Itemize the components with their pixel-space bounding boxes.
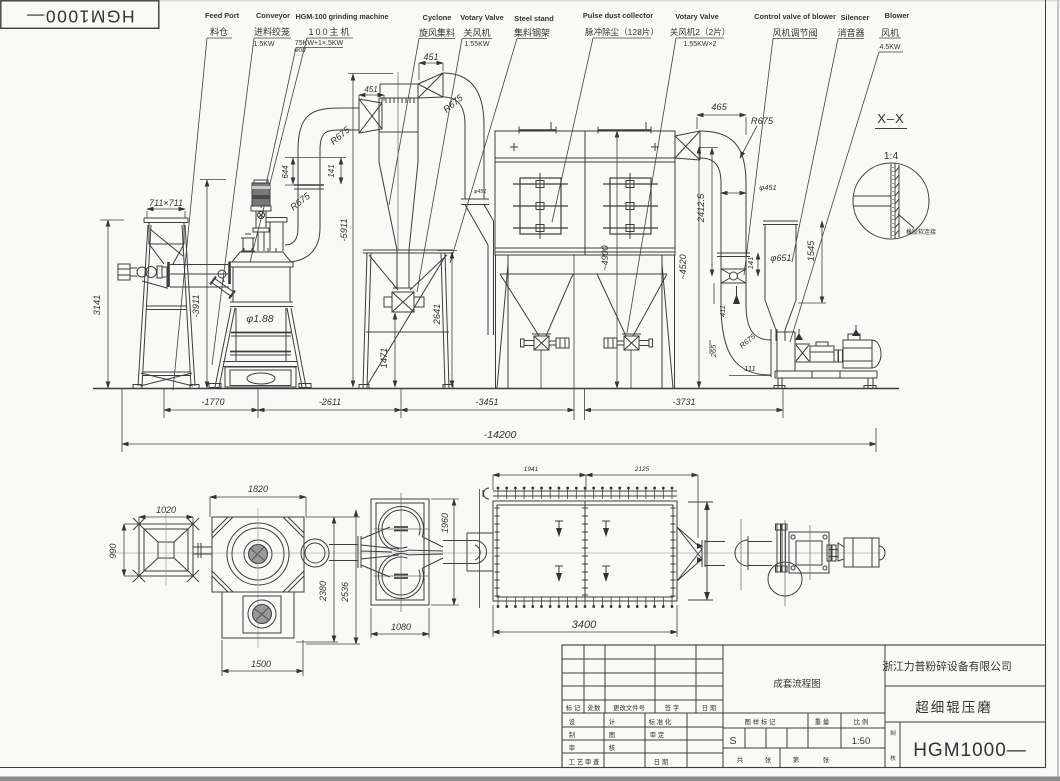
svg-text:-2611: -2611 xyxy=(319,397,341,407)
svg-text:1:50: 1:50 xyxy=(852,736,871,747)
svg-text:φ451: φ451 xyxy=(474,189,487,195)
svg-text:Votary Valve: Votary Valve xyxy=(675,12,718,21)
svg-text:处数: 处数 xyxy=(588,703,601,712)
svg-text:1020: 1020 xyxy=(156,505,176,515)
svg-text:消音器: 消音器 xyxy=(837,27,864,38)
svg-text:日 期: 日 期 xyxy=(654,758,669,766)
svg-text:重 量: 重 量 xyxy=(815,718,830,726)
svg-text:图 样 标 记: 图 样 标 记 xyxy=(745,717,776,726)
svg-text:141: 141 xyxy=(327,164,336,177)
svg-text:451: 451 xyxy=(364,85,377,94)
svg-text:1.55KW×2: 1.55KW×2 xyxy=(684,41,717,48)
svg-text:HGM1000—: HGM1000— xyxy=(913,740,1027,761)
svg-text:644: 644 xyxy=(281,165,290,179)
svg-text:-3451: -3451 xyxy=(475,397,498,407)
svg-text:-14200: -14200 xyxy=(484,429,517,441)
svg-text:工 艺 审 查: 工 艺 审 查 xyxy=(569,757,600,766)
svg-text:465: 465 xyxy=(711,102,727,112)
svg-text:100主机: 100主机 xyxy=(308,26,351,37)
svg-text:比 例: 比 例 xyxy=(854,717,869,726)
svg-text:集料钢架: 集料钢架 xyxy=(514,27,550,38)
svg-text:图: 图 xyxy=(609,731,615,739)
svg-text:1941: 1941 xyxy=(524,466,539,473)
svg-text:3141: 3141 xyxy=(92,295,102,316)
svg-text:签 字: 签 字 xyxy=(665,703,680,712)
svg-text:旋风集料: 旋风集料 xyxy=(419,27,455,38)
svg-text:2125: 2125 xyxy=(634,466,650,473)
svg-text:标 记: 标 记 xyxy=(566,703,581,712)
svg-text:1820: 1820 xyxy=(248,484,268,494)
svg-text:~4520: ~4520 xyxy=(678,254,688,279)
svg-text:Pulse dust collector: Pulse dust collector xyxy=(583,11,653,20)
svg-text:HGM-100 grinding machine: HGM-100 grinding machine xyxy=(295,12,388,21)
svg-text:脉冲除尘（128片）: 脉冲除尘（128片） xyxy=(585,27,659,37)
svg-text:HGM1000—: HGM1000— xyxy=(25,6,134,26)
svg-text:审: 审 xyxy=(569,743,575,752)
svg-text:浙江力普粉碎设备有限公司: 浙江力普粉碎设备有限公司 xyxy=(882,659,1012,673)
svg-text:Votary Valve: Votary Valve xyxy=(460,13,503,22)
svg-text:Cyclone: Cyclone xyxy=(423,13,452,22)
svg-text:1960: 1960 xyxy=(440,513,450,533)
svg-text:Conveyor: Conveyor xyxy=(256,11,290,20)
svg-text:φ451: φ451 xyxy=(759,183,776,192)
svg-text:核: 核 xyxy=(890,754,896,762)
svg-text:1500: 1500 xyxy=(251,659,271,669)
svg-text:R675: R675 xyxy=(751,116,774,126)
svg-text:411: 411 xyxy=(718,305,727,317)
svg-text:风机: 风机 xyxy=(881,27,899,38)
svg-text:橡胶软连接: 橡胶软连接 xyxy=(906,228,936,236)
svg-text:-5911: -5911 xyxy=(339,218,349,241)
svg-text:关风机: 关风机 xyxy=(463,27,490,38)
svg-text:2380: 2380 xyxy=(318,581,328,602)
svg-text:Feed Port: Feed Port xyxy=(205,11,240,20)
svg-text:1.55KW: 1.55KW xyxy=(465,41,490,48)
svg-text:2536: 2536 xyxy=(340,582,350,603)
svg-text:Blower: Blower xyxy=(885,11,910,20)
svg-text:设: 设 xyxy=(569,717,576,726)
svg-text:张: 张 xyxy=(765,755,772,764)
svg-text:3400: 3400 xyxy=(572,619,597,631)
svg-text:X–X: X–X xyxy=(877,111,905,126)
svg-text:审 定: 审 定 xyxy=(650,730,665,739)
svg-text:制: 制 xyxy=(890,729,896,737)
svg-text:1:4: 1:4 xyxy=(884,150,899,162)
svg-text:-1770: -1770 xyxy=(201,397,224,407)
svg-text:第: 第 xyxy=(793,755,800,764)
svg-text:2412.5: 2412.5 xyxy=(696,193,706,223)
svg-text:1471: 1471 xyxy=(379,348,389,369)
svg-text:进料绞笼: 进料绞笼 xyxy=(254,26,290,37)
svg-text:Control valve of blower: Control valve of blower xyxy=(754,12,836,21)
svg-text:关风机2（2片）: 关风机2（2片） xyxy=(670,27,730,37)
svg-text:标 准 化: 标 准 化 xyxy=(649,717,672,726)
svg-text:265: 265 xyxy=(709,344,718,358)
svg-text:共: 共 xyxy=(737,755,744,764)
svg-text:料仓: 料仓 xyxy=(210,26,228,37)
svg-text:日 期: 日 期 xyxy=(702,704,717,712)
svg-text:Steel stand: Steel stand xyxy=(514,14,554,23)
svg-text:75KW+1×.5KW: 75KW+1×.5KW xyxy=(295,40,344,47)
svg-text:711×711: 711×711 xyxy=(149,198,183,208)
svg-text:S: S xyxy=(729,735,736,747)
svg-text:1080: 1080 xyxy=(391,622,411,632)
svg-text:超细辊压磨: 超细辊压磨 xyxy=(915,700,993,715)
svg-text:-3731: -3731 xyxy=(672,397,695,407)
svg-text:φ651: φ651 xyxy=(771,253,792,263)
svg-text:111: 111 xyxy=(744,364,755,373)
svg-text:更改文件号: 更改文件号 xyxy=(613,703,645,712)
svg-text:4.5KW: 4.5KW xyxy=(879,44,900,51)
svg-text:核: 核 xyxy=(609,743,616,752)
svg-text:451: 451 xyxy=(423,52,438,62)
svg-text:~4900: ~4900 xyxy=(600,245,610,270)
svg-text:990: 990 xyxy=(108,543,118,558)
svg-text:Silencer: Silencer xyxy=(841,13,870,22)
svg-text:φ1.88: φ1.88 xyxy=(246,313,273,325)
svg-text:张: 张 xyxy=(823,755,830,764)
svg-text:计: 计 xyxy=(609,717,616,726)
svg-text:1545: 1545 xyxy=(806,240,816,262)
svg-text:2641: 2641 xyxy=(432,304,442,326)
svg-text:制: 制 xyxy=(569,730,575,739)
svg-text:风机调节阀: 风机调节阀 xyxy=(772,27,817,38)
svg-text:1.5KW: 1.5KW xyxy=(253,41,274,48)
svg-text:141: 141 xyxy=(746,257,755,270)
svg-text:-3911: -3911 xyxy=(191,294,201,317)
svg-text:成套流程图: 成套流程图 xyxy=(773,678,821,690)
